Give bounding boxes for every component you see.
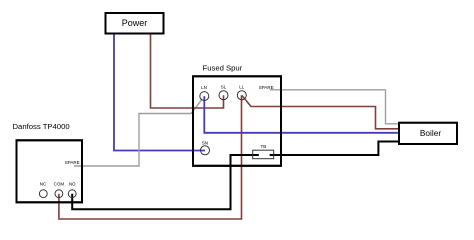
- wire: black fused spur TB to boiler: [270, 142, 399, 156]
- wire: grey fused spur SPARE to boiler: [270, 90, 399, 124]
- svg-text:COM: COM: [54, 182, 65, 187]
- svg-text:Boiler: Boiler: [420, 128, 441, 138]
- svg-text:LN: LN: [201, 85, 207, 90]
- svg-text:TB: TB: [261, 144, 267, 149]
- terminal LL: [237, 85, 246, 100]
- terminal LN: [200, 85, 209, 101]
- power box: [106, 13, 164, 34]
- terminal SN: [201, 141, 210, 155]
- boiler box: [399, 123, 457, 144]
- wire: grey danfoss SPARE to fused spur LN: [74, 99, 202, 166]
- wire: blue fused spur LN to boiler: [204, 96, 399, 133]
- fused spur box border (over wires): [193, 76, 281, 166]
- svg-text:NO: NO: [69, 182, 76, 187]
- wire: neutral (blue) power to fused spur SN: [114, 34, 205, 151]
- boiler box redrawn on top of wires: [399, 123, 457, 144]
- svg-text:SPARE: SPARE: [259, 85, 274, 90]
- wire: brown fused spur LL to danfoss COM: [59, 95, 242, 219]
- terminal NC: [39, 182, 47, 198]
- wire: black danfoss NO to fused spur TB: [72, 155, 259, 209]
- wire: live (brown) power to fused spur SL: [151, 34, 224, 109]
- svg-text:SPARE: SPARE: [65, 160, 80, 165]
- svg-text:Danfoss TP4000: Danfoss TP4000: [13, 122, 70, 131]
- svg-text:Power: Power: [122, 18, 148, 28]
- terminal NO: [68, 182, 76, 198]
- fused spur box: [193, 76, 281, 166]
- terminal SL: [219, 85, 228, 100]
- danfoss box border (over wires): [17, 140, 83, 202]
- terminal block TB: [253, 144, 274, 159]
- power box border (over wires): [106, 13, 164, 34]
- svg-text:LL: LL: [239, 85, 245, 90]
- danfoss tp4000 box: [17, 140, 83, 202]
- svg-text:SL: SL: [221, 85, 227, 90]
- terminal COM: [54, 182, 65, 198]
- svg-text:Fused Spur: Fused Spur: [203, 63, 243, 72]
- svg-text:NC: NC: [40, 182, 47, 187]
- wire: brown fused spur LL to boiler: [242, 95, 399, 129]
- svg-text:SN: SN: [202, 141, 208, 146]
